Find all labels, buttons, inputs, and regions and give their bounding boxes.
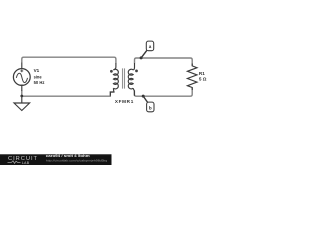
node b flag <box>147 102 154 112</box>
wire top rail primary <box>22 57 116 63</box>
node a flag <box>146 41 153 51</box>
transformer XFMR1 core lines <box>123 68 125 88</box>
svg-text:V1: V1 <box>34 68 40 73</box>
node b lead diagonal <box>143 96 147 102</box>
svg-text:XFMR1: XFMR1 <box>115 99 134 104</box>
watermark logo waveform <box>8 161 21 164</box>
voltage source V1 plus sign <box>20 70 23 73</box>
svg-text:a: a <box>149 44 152 49</box>
svg-text:sine: sine <box>34 74 42 79</box>
svg-text:LAB: LAB <box>22 161 30 165</box>
transformer XFMR1 primary bottom lead <box>110 88 114 95</box>
svg-text:50 Hz: 50 Hz <box>34 80 45 85</box>
voltage source V1 sine wave <box>16 73 27 82</box>
wire bottom rail primary <box>22 91 114 97</box>
wire bottom rail secondary <box>134 88 192 97</box>
voltage source V1 circle <box>13 69 30 86</box>
watermark bar top border <box>0 153 112 156</box>
junction dot node a <box>140 56 143 59</box>
transformer XFMR1 primary coil <box>113 69 118 89</box>
transformer XFMR1 secondary top lead <box>133 63 134 70</box>
transformer XFMR1 primary top lead <box>113 63 116 70</box>
voltage source V1 top lead <box>21 63 23 69</box>
wire top rail secondary <box>135 58 193 66</box>
junction dot node b <box>142 95 145 98</box>
watermark bar <box>0 154 112 165</box>
svg-text:http://circuitlab.com/c/cabqrm: http://circuitlab.com/c/cabqrmjeh98d5kq <box>46 158 108 162</box>
junction dot at ground node <box>20 95 23 98</box>
voltage source V1 minus sign <box>20 84 23 86</box>
resistor R1 <box>187 64 197 91</box>
ground <box>14 96 30 110</box>
transformer XFMR1 secondary phase dot <box>135 70 138 73</box>
svg-text:5 Ω: 5 Ω <box>199 76 207 81</box>
transformer XFMR1 secondary coil <box>128 69 133 89</box>
transformer XFMR1 secondary bottom lead <box>133 88 134 95</box>
voltage source V1 bottom lead <box>21 86 23 91</box>
svg-text:b: b <box>149 106 152 111</box>
node a lead diagonal <box>141 50 147 58</box>
transformer XFMR1 primary phase dot <box>110 70 113 73</box>
